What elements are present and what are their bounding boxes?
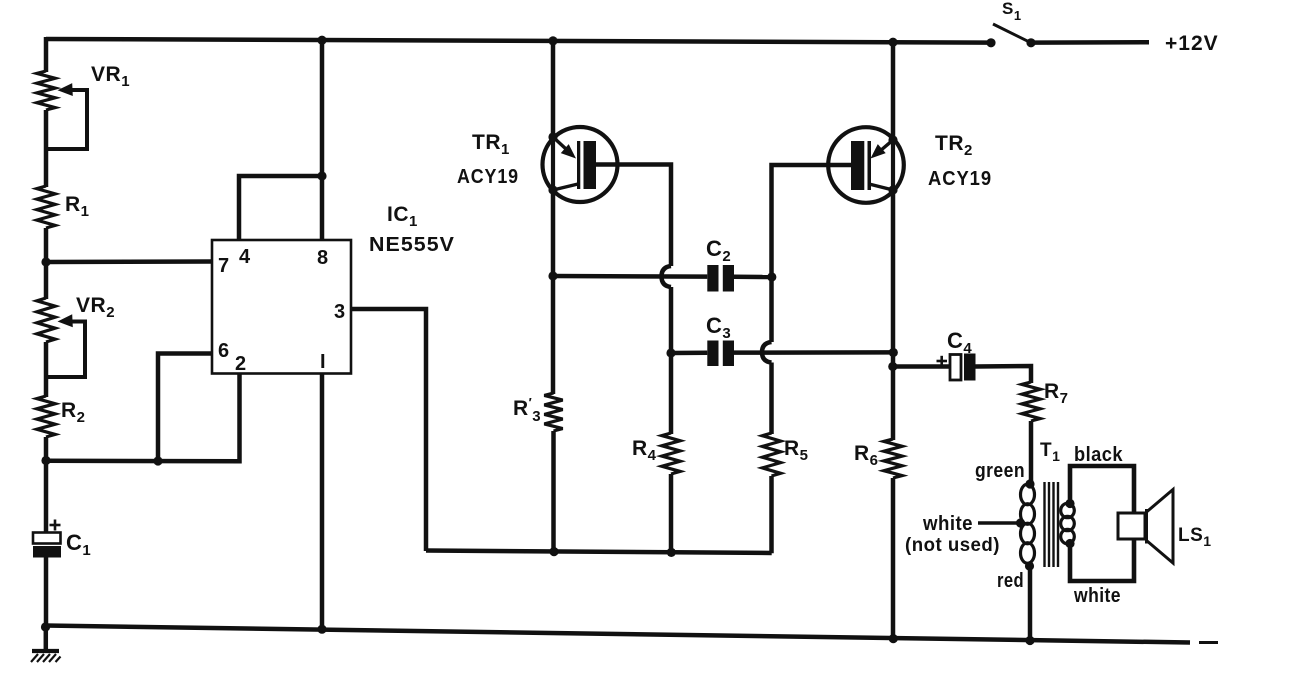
- label not used: [905, 535, 1000, 556]
- wire bottom ground rail: [45, 626, 1190, 643]
- wire C4 row left: [893, 364, 950, 369]
- potentiometer VR2: [37, 298, 55, 342]
- wire VR1 to R1: [44, 110, 49, 187]
- label C1: [66, 530, 91, 559]
- transformer T1 primary winding: [1021, 479, 1035, 570]
- label green: [975, 460, 1025, 482]
- svg-text:ACY19: ACY19: [457, 166, 519, 188]
- label TR1: [472, 131, 510, 158]
- label C2: [706, 236, 731, 265]
- label R6: [854, 442, 879, 469]
- node rail-TR1 junction: [548, 36, 557, 45]
- wire R4 leads: [669, 354, 674, 554]
- wire pin6 branch: [158, 354, 212, 462]
- node T1 centre tap: [978, 518, 1025, 527]
- wire TR2 base hop over C3 row: [762, 267, 772, 434]
- wire VR2 to R2: [44, 342, 49, 397]
- label T1: [1040, 440, 1060, 464]
- svg-text:green: green: [975, 460, 1025, 482]
- pin 6 label: [218, 340, 230, 362]
- wire pin7: [46, 259, 212, 264]
- node TR2 C4 junction: [888, 362, 897, 371]
- node pin1-rail junction: [317, 625, 326, 634]
- label black: [1074, 444, 1123, 466]
- wire pin8 to rail: [320, 40, 325, 240]
- svg-text:2: 2: [235, 353, 247, 375]
- node C3 left junction: [666, 348, 675, 357]
- capacitor C4: [937, 354, 976, 381]
- wire R7 to T1: [1029, 421, 1034, 485]
- pin 7 label: [218, 255, 230, 277]
- svg-text:black: black: [1074, 444, 1123, 466]
- svg-text:4: 4: [239, 246, 251, 268]
- label R1: [65, 193, 90, 220]
- label white (primary tap): [922, 513, 973, 535]
- resistor R5: [762, 433, 780, 476]
- ground: [31, 627, 61, 662]
- svg-text:(not used): (not used): [905, 535, 1000, 556]
- node TR2 base C2 junction: [767, 272, 776, 281]
- label R3: [513, 395, 541, 425]
- label IC1: [387, 203, 418, 230]
- node TR1 emitter C2 junction: [548, 271, 557, 280]
- wire left vertical top: [44, 37, 49, 72]
- wire R3 to bus: [551, 431, 556, 553]
- VR2 wiper arrow: [46, 314, 85, 377]
- label VR1: [91, 63, 130, 90]
- wire TR2 rail drop: [891, 40, 896, 141]
- wire TR2 base: [772, 165, 852, 267]
- resistor R2: [37, 396, 55, 437]
- capacitor C3: [707, 341, 734, 367]
- resistor R1: [37, 186, 55, 228]
- label R4: [632, 437, 657, 464]
- transformer T1 core: [1045, 482, 1059, 567]
- VR1 wiper arrow: [46, 83, 87, 149]
- label TR2: [935, 132, 973, 159]
- label C4: [947, 328, 972, 357]
- speaker LS1 horn: [1147, 490, 1174, 564]
- node rail-pin8 junction: [317, 36, 326, 45]
- label C3: [706, 313, 731, 342]
- speaker LS1 driver: [1118, 513, 1145, 539]
- node pin7 junction: [41, 257, 50, 266]
- switch S1: [986, 24, 1149, 47]
- pin 2 label: [235, 353, 247, 375]
- svg-text:+12V: +12V: [1165, 32, 1219, 55]
- wire C4 to R7: [976, 366, 1032, 383]
- op-amp IC1 NE555 body: [212, 240, 351, 374]
- wire C3 row left: [671, 351, 707, 356]
- label R5: [784, 437, 809, 464]
- transistor TR1: [543, 127, 618, 202]
- resistor R6: [884, 439, 902, 478]
- wire pin3 bus: [426, 551, 772, 554]
- pin 8 label: [317, 247, 329, 269]
- node pin2 junction left: [41, 456, 50, 465]
- label TR1 ACY19: [457, 166, 519, 188]
- svg-text:3: 3: [334, 301, 346, 323]
- node pin6-pin2 junction: [153, 456, 162, 465]
- svg-text:white: white: [922, 513, 973, 535]
- label NE555V: [369, 234, 455, 256]
- node bottom-left junction: [41, 622, 50, 631]
- svg-text:ACY19: ACY19: [928, 168, 992, 190]
- svg-text:white: white: [1073, 585, 1121, 607]
- wire secondary top to speaker: [1070, 466, 1134, 514]
- wire secondary bottom to speaker: [1070, 538, 1134, 581]
- node R4 bus junction: [667, 548, 676, 557]
- wire pin2 down-left: [46, 374, 240, 462]
- node T1 rail junction: [1025, 636, 1034, 645]
- wire T1 primary bottom to rail: [1028, 566, 1033, 642]
- wire C2 row left: [553, 274, 707, 279]
- svg-text:NE555V: NE555V: [369, 234, 455, 256]
- wire R6 to rail: [891, 478, 896, 640]
- transistor TR2: [828, 127, 904, 203]
- node rail-TR2 junction: [888, 38, 897, 47]
- node pin4-pin8 junction: [317, 171, 326, 180]
- svg-text:7: 7: [218, 255, 230, 277]
- pin 4 label: [239, 246, 251, 268]
- wire top supply rail: [46, 39, 991, 43]
- svg-text:red: red: [997, 570, 1024, 592]
- transformer T1 secondary winding: [1061, 499, 1075, 548]
- potentiometer VR1: [37, 71, 55, 110]
- wire TR1 emitter down: [551, 190, 556, 394]
- wire TR1 base hop over C2 row: [662, 266, 672, 354]
- wire TR1 collector rail drop: [551, 40, 556, 138]
- wire TR1 base: [595, 165, 671, 267]
- pin 1 label: [320, 351, 326, 373]
- label LS1: [1178, 525, 1212, 549]
- pin 3 label: [334, 301, 346, 323]
- node R3 bus junction: [549, 547, 558, 556]
- label R7: [1044, 380, 1069, 407]
- wire pin1 to ground rail: [320, 374, 325, 631]
- svg-text:8: 8: [317, 247, 329, 269]
- label white (speaker): [1073, 585, 1121, 607]
- resistor R7: [1022, 382, 1040, 421]
- label TR2 ACY19: [928, 168, 992, 190]
- label minus terminal: [1199, 641, 1218, 644]
- capacitor C1: [33, 520, 61, 558]
- label S1: [1002, 0, 1022, 23]
- wire R5 to bus: [769, 476, 774, 553]
- svg-text:6: 6: [218, 340, 230, 362]
- label VR2: [76, 294, 115, 321]
- label R2: [61, 399, 86, 426]
- wire C3 row right: [734, 350, 893, 355]
- wire R2 to C1: [44, 437, 49, 533]
- wire pin3 output: [351, 309, 426, 551]
- resistor R3: [544, 393, 562, 431]
- wire C1 to ground rail: [44, 558, 49, 629]
- wire TR2 collector down: [891, 190, 896, 440]
- node TR2 C3 junction: [889, 348, 898, 357]
- label +12V: [1165, 32, 1219, 55]
- resistor R4: [662, 433, 680, 474]
- wire pin4 loop: [239, 176, 322, 240]
- svg-text:I: I: [320, 351, 326, 373]
- label red: [997, 570, 1024, 592]
- capacitor C2: [707, 265, 734, 292]
- wire R1 to VR2: [44, 228, 49, 299]
- node R6 rail junction: [889, 634, 898, 643]
- wire C2 row right: [734, 275, 772, 280]
